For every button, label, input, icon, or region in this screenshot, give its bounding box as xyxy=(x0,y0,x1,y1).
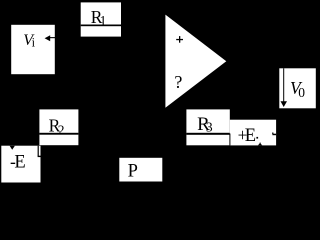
positive supply +E label box xyxy=(230,120,276,146)
resistor R2 box xyxy=(39,109,78,145)
wire arrowhead (down) at top of -E box xyxy=(10,146,15,150)
output V0 label box xyxy=(279,68,316,108)
wire arrow into Vi (input arrow) xyxy=(45,35,56,41)
svg-text:2: 2 xyxy=(58,122,65,137)
wire tick at right edge of +E box xyxy=(272,133,276,136)
wire elbow in -E box (horizontal) xyxy=(38,156,41,157)
op-amp U1 triangle xyxy=(165,15,226,108)
wire down from R3 at +E box left edge xyxy=(229,134,230,146)
negative supply -E label box xyxy=(1,146,40,183)
wire arrowhead (up) at bottom of +E box xyxy=(258,143,262,146)
resistor R1 box xyxy=(81,2,121,36)
svg-text:?: ? xyxy=(174,72,182,92)
svg-text:i: i xyxy=(32,36,36,50)
svg-text:E: E xyxy=(14,152,25,172)
voltage source Vi label box xyxy=(11,25,55,74)
wire dot after +E xyxy=(256,137,258,139)
wire through R1 xyxy=(81,25,121,27)
op-amp non-inverting + input mark xyxy=(176,36,183,43)
output wire arrow (downward) xyxy=(281,68,288,107)
resistor R3 box xyxy=(186,109,229,145)
svg-text:P: P xyxy=(128,161,138,181)
wire elbow in -E box (vertical) xyxy=(38,146,39,156)
svg-text:E: E xyxy=(245,126,256,146)
potentiometer P label box xyxy=(119,158,162,182)
svg-text:0: 0 xyxy=(298,85,305,100)
wire through R2 xyxy=(39,133,78,135)
svg-text:3: 3 xyxy=(206,120,213,135)
wire through R3 xyxy=(186,133,229,135)
